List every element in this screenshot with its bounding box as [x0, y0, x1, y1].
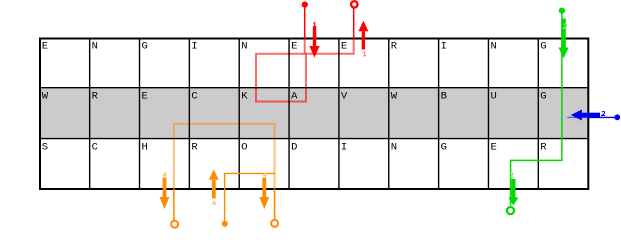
svg-text:H: H: [142, 142, 148, 154]
green ring terminal: [507, 207, 514, 214]
orange up arrow: [209, 170, 219, 199]
svg-text:N: N: [391, 142, 397, 154]
green bottom arrow label 2: [510, 173, 514, 177]
svg-text:G: G: [540, 41, 546, 53]
grid shaded middle row: [40, 88, 588, 139]
orange bright right wire below grid: [274, 189, 276, 220]
svg-text:K: K: [241, 91, 248, 103]
svg-text:V: V: [341, 91, 348, 103]
svg-text:E: E: [142, 91, 148, 103]
blue arrow label 2: [602, 111, 605, 115]
orange left ring terminal: [171, 221, 178, 228]
svg-text:R: R: [92, 91, 99, 103]
svg-text:O: O: [241, 142, 247, 154]
green bottom down arrow: [508, 179, 518, 205]
svg-text:N: N: [491, 41, 497, 53]
svg-text:I: I: [191, 41, 197, 53]
orange bright left wire below grid: [173, 189, 175, 221]
svg-text:B: B: [441, 91, 447, 103]
svg-text:G: G: [540, 91, 546, 103]
svg-text:G: G: [142, 41, 148, 53]
svg-text:W: W: [42, 91, 49, 103]
red up arrow label 1: [363, 52, 366, 56]
orange left down arrow: [160, 178, 170, 210]
orange pale outer wire inside grid: [174, 124, 275, 190]
svg-text:C: C: [92, 142, 98, 154]
grid inner vertical lines: [90, 39, 539, 190]
svg-text:R: R: [540, 142, 547, 154]
orange left arrow label 4: [163, 172, 167, 176]
orange right ring terminal: [271, 220, 278, 227]
red down arrow label 1: [313, 22, 316, 26]
svg-text:N: N: [92, 41, 98, 53]
svg-text:G: G: [441, 142, 447, 154]
svg-text:E: E: [341, 41, 347, 53]
red up arrow: [358, 21, 368, 50]
green wire route: [511, 12, 562, 206]
svg-text:U: U: [491, 91, 497, 103]
blue bright wire outside grid: [589, 116, 615, 118]
red pale wire elbow from ring wire: [306, 39, 354, 54]
orange up arrow label 4: [213, 201, 217, 205]
svg-text:R: R: [191, 142, 198, 154]
red terminal dot: [302, 2, 308, 8]
green terminal dot: [559, 8, 565, 14]
svg-text:D: D: [291, 142, 297, 154]
orange bright inner wire: [225, 173, 276, 221]
green top arrow label 2: [564, 24, 568, 28]
red ring terminal: [351, 1, 357, 7]
blue pale wire inside grid: [567, 116, 589, 118]
blue left arrow: [571, 110, 600, 121]
svg-text:E: E: [291, 41, 297, 53]
svg-text:W: W: [391, 91, 398, 103]
orange middle terminal dot: [222, 221, 228, 227]
svg-text:C: C: [191, 91, 197, 103]
red wire from dot: [304, 7, 306, 40]
svg-text:R: R: [391, 41, 398, 53]
svg-text:I: I: [341, 142, 347, 154]
svg-text:A: A: [291, 91, 298, 103]
grid outer border: [40, 39, 588, 190]
svg-text:I: I: [441, 41, 447, 53]
svg-text:E: E: [42, 41, 48, 53]
svg-text:E: E: [491, 142, 497, 154]
orange right down arrow: [259, 178, 269, 210]
red pale wire continuation inside grid: [304, 39, 306, 54]
red down arrow: [309, 27, 319, 58]
orange right arrow label 4: [263, 172, 267, 176]
red highlight box: [256, 54, 306, 102]
grid inner horizontal lines: [40, 88, 588, 139]
svg-text:N: N: [241, 41, 247, 53]
green top down arrow: [559, 19, 569, 59]
blue terminal dot: [614, 114, 620, 120]
red wire from ring: [353, 7, 355, 40]
svg-text:S: S: [42, 142, 48, 154]
